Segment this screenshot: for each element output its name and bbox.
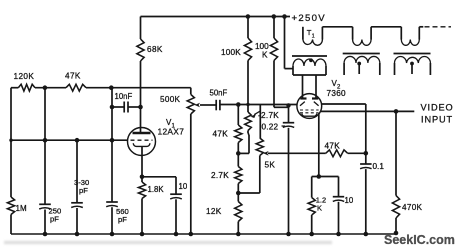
wire 0.22 cap top lead (288, 105, 290, 123)
tube V1 plate (133, 132, 151, 135)
resistor 47K (chain) (235, 125, 242, 143)
node 10nF left (110, 105, 115, 110)
svg-text:500K: 500K (160, 95, 181, 104)
tube V2 plate 1 (300, 97, 306, 99)
wire 68K top lead (140, 17, 142, 40)
node 12K at bottom bus (236, 232, 241, 237)
node 560pF at bottom bus (110, 232, 115, 237)
resistor 100K left (244, 38, 251, 61)
inductor T1 primary winding (series coils) (302, 27, 304, 40)
potentiometer 500K wiper arrow (195, 103, 200, 108)
resistor 12K (235, 202, 242, 222)
resistor 47K top-left (horizontal) (66, 84, 86, 91)
resistor 2.7K (chain) (235, 167, 242, 184)
transformer T1 secondary B core (343, 53, 380, 55)
wire 0.1 bottom lead (365, 169, 367, 234)
wire 12K to bottom bus (237, 222, 239, 235)
wire 10 cap lead (V1) (175, 177, 177, 194)
resistor 1.8K (141, 177, 143, 182)
wire 500K top lead (190, 88, 192, 95)
svg-text:pF: pF (79, 186, 88, 195)
wire V2 right deflection to 0.1 (322, 103, 366, 105)
svg-text:1.8K: 1.8K (148, 185, 165, 194)
node 0.22 top junction (286, 103, 290, 107)
node junction 47K/10nF branch (109, 85, 114, 90)
node cathode junction (140, 175, 145, 180)
wire deflection line1 y=104.5 (220, 104, 297, 106)
wire 0.22 cap bottom lead (288, 128, 290, 234)
wire 5K top lead (259, 105, 261, 139)
transformer T1 secondary A core (292, 55, 327, 57)
transformer T1 secondary B winding (344, 56, 380, 63)
svg-text:47K: 47K (65, 72, 81, 81)
node 0.22 at bottom bus (286, 232, 291, 237)
wire secondary A leads to V2 plates (292, 66, 294, 75)
tube V2 cathode (302, 114, 317, 117)
node secondary C tap (410, 62, 414, 66)
resistor 1.2K (308, 198, 315, 216)
resistor 120K (horizontal) (18, 84, 35, 91)
wire 100K-left top lead (247, 17, 249, 39)
potentiometer 2.7K wiper arrow (254, 111, 260, 114)
svg-text:120K: 120K (14, 72, 35, 81)
wire top bus +250V (141, 16, 291, 18)
wire 250pF branch vertical x=45 (44, 88, 46, 205)
svg-text:VIDEO: VIDEO (421, 102, 454, 112)
wire pot 2.7K bottom lead (247, 131, 249, 134)
wire 100K-right top lead (273, 17, 275, 39)
node grid bus at left rail (9, 139, 12, 142)
node 10 cap at bottom bus (174, 232, 179, 237)
wire V1 cathode lead (141, 147, 143, 177)
potentiometer 2.7K (245, 112, 252, 131)
node 500K at bottom bus (189, 232, 194, 237)
potentiometer 5K (256, 138, 263, 156)
svg-text:+250V: +250V (292, 13, 327, 24)
node V2 cathode junction (317, 174, 322, 179)
wire cathode rail (142, 176, 176, 178)
node 10 cap at bottom bus (V2) (336, 232, 341, 237)
wire top-left bus y=87.7 (11, 87, 18, 89)
transformer T1 secondary A winding (293, 59, 326, 66)
resistor 100K right (270, 38, 277, 61)
tube V2 deflection electrode right (314, 102, 319, 106)
svg-text:10nF: 10nF (115, 92, 133, 101)
svg-text:10: 10 (179, 182, 188, 191)
svg-text:2.7K: 2.7K (211, 171, 229, 180)
wire left vertical x=11 (10, 88, 12, 197)
tube V2 grid 2 (dashed) (300, 112, 319, 114)
svg-text:-2.7K: -2.7K (258, 111, 279, 120)
transformer T1 secondary C core (394, 53, 431, 55)
wire 47K chain top lead (237, 105, 239, 126)
capacitor 10 (V1 cathode) (170, 193, 182, 195)
tube V2 plate 2 (312, 97, 318, 99)
wire pot 2.7K top lead (247, 105, 249, 113)
wire bottom bus (11, 233, 396, 235)
wire 68K to V1 plate (140, 61, 142, 133)
node 100K-left at bus (246, 14, 251, 19)
tube V2 grid 1 (dashed) (300, 109, 319, 111)
wire dashed continuation (425, 26, 452, 28)
wire V2 cathode lead (318, 114, 320, 177)
svg-text:68K: 68K (147, 45, 163, 54)
wire 100K-left bottom lead (247, 61, 249, 105)
wire 10nF right lead (128, 106, 141, 108)
node 0.1 at bottom bus (364, 232, 369, 237)
wire 3-30pF branch vertical x=77 (76, 140, 78, 203)
node 3-30pF/grid bus (75, 138, 80, 143)
svg-text:0.22: 0.22 (262, 123, 279, 132)
svg-text:470K: 470K (402, 203, 423, 212)
capacitor 0.22 (283, 122, 294, 124)
wire 10nF left lead (112, 106, 124, 108)
potentiometer 500K (187, 94, 194, 114)
wire 5K wiper line to 47K (268, 152, 326, 154)
svg-text:INPUT: INPUT (421, 115, 453, 125)
wire 1M to ground bus (10, 215, 12, 235)
node 250pF/grid bus (43, 138, 48, 143)
capacitor 250pF (39, 203, 51, 205)
wire 500K bottom lead (190, 114, 192, 234)
svg-text:12AX7: 12AX7 (158, 127, 185, 137)
node 1.8K at bottom bus (140, 232, 145, 237)
svg-text:12K: 12K (206, 207, 222, 216)
node 470K at bottom bus (394, 231, 399, 236)
svg-text:1M: 1M (16, 204, 27, 213)
svg-text:5K: 5K (265, 161, 276, 170)
svg-text:pF: pF (50, 215, 59, 224)
node 47K/0.1 junction (364, 151, 369, 156)
capacitor 3-30pF trimmer (71, 202, 83, 204)
capacitor 10nF (123, 102, 125, 113)
wire 47K chain bottom lead (237, 143, 239, 167)
wire 10 cap top lead (V2) (338, 177, 340, 197)
svg-text:1: 1 (312, 34, 315, 40)
tube V2 deflection electrode left (300, 102, 305, 106)
wire V2 grid to VIDEO INPUT (321, 110, 415, 112)
wire 100K-right bottom lead (273, 61, 275, 108)
svg-text:K: K (262, 51, 268, 60)
node secondary A center tap (309, 58, 313, 62)
capacitor 10 (V2 cathode) (333, 196, 344, 198)
svg-text:10: 10 (345, 196, 354, 205)
wire V1 grid bus y=140.2 (11, 139, 128, 141)
node 1.2K at bottom bus (309, 232, 314, 237)
node junction 120K/47K (43, 85, 48, 90)
wire 2.7K chain bottom lead (237, 184, 239, 202)
svg-text:47K: 47K (213, 130, 229, 139)
node +250V drop at bus (282, 14, 287, 19)
resistor 1M (7, 197, 14, 215)
tube V1 envelope (128, 128, 156, 156)
potentiometer 5K wiper arrow (263, 151, 268, 156)
wire 5K bottom lead (259, 156, 261, 194)
svg-text:0.1: 0.1 (373, 162, 385, 171)
capacitor 0.1 (360, 163, 372, 165)
wire 560pF branch vertical x=112 (111, 88, 113, 202)
svg-text:47K: 47K (325, 142, 341, 151)
wire +250V drop to T1 (284, 17, 286, 69)
svg-text:pF: pF (118, 215, 127, 224)
node pot 2.7K top (246, 103, 249, 106)
svg-text:100K: 100K (221, 48, 241, 57)
node 560pF/grid bus (110, 138, 115, 143)
resistor 68K (137, 39, 144, 61)
node secondary B tap (357, 62, 361, 66)
wire 470K bottom lead (395, 218, 397, 233)
svg-text:SeekIC.com: SeekIC.com (384, 233, 455, 247)
capacitor 560pF (106, 201, 118, 203)
svg-text:50nF: 50nF (210, 89, 228, 98)
svg-text:7360: 7360 (327, 89, 347, 98)
wire V2 cathode rail (312, 176, 339, 178)
capacitor 50nF (215, 100, 217, 111)
svg-text:K: K (317, 204, 322, 213)
wire 10 cap bottom lead (V2) (338, 202, 340, 234)
node chain top (236, 102, 241, 107)
tube V1 cathode (133, 143, 150, 146)
node 250pF at bottom bus (43, 232, 48, 237)
tube V2 envelope (297, 94, 322, 119)
transformer T1 secondary C winding (395, 57, 431, 63)
resistor 47K (deflection, horizontal) (326, 150, 348, 157)
node 2.7K/12K junction (236, 191, 241, 196)
node 47K/2.7K junction (236, 151, 241, 156)
resistor 470K (392, 196, 399, 219)
node 3-30pF at bottom bus (75, 232, 80, 237)
node 100K-right at bus (272, 14, 277, 19)
node 470K junction (394, 109, 399, 114)
wire 1.2K bottom lead (311, 215, 313, 234)
wire 500K wiper to 50nF (200, 104, 216, 106)
node 10nF right / V1 plate (138, 105, 143, 110)
wire 470K top lead (395, 111, 397, 195)
wire 1.2K top lead (311, 177, 313, 198)
tube V1 grid (dashed) (131, 139, 153, 141)
